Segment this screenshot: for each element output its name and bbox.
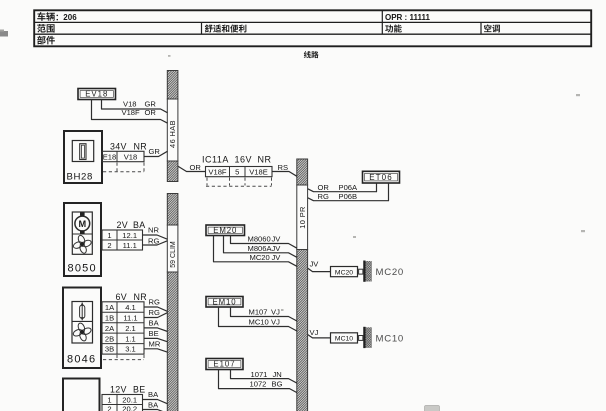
svg-text:V18E: V18E [249,168,268,177]
svg-text:BA: BA [133,220,145,230]
svg-text:2B: 2B [105,334,114,343]
svg-text:MC20: MC20 [335,269,353,276]
svg-text:2V: 2V [117,220,128,230]
svg-text:E107: E107 [213,360,235,369]
svg-text:V18F: V18F [122,108,141,117]
header text: parts row [37,36,55,45]
svg-text:JV: JV [272,253,282,262]
svg-text:BA: BA [149,319,160,328]
8046 connector dashed outline [103,355,144,360]
component 8046 blower resistor unit [63,288,101,369]
svg-text:3B: 3B [105,345,114,354]
svg-text:12.1: 12.1 [122,231,137,240]
svg-text:2A: 2A [105,324,115,333]
svg-text:M8060: M8060 [248,235,271,244]
svg-text:RG: RG [149,298,160,307]
stray scan mark left edge [0,30,8,37]
bus 59 CLIM [167,194,178,411]
svg-text:RG: RG [318,192,329,201]
svg-text:8050: 8050 [68,263,97,275]
wire RG P06B [308,183,389,201]
svg-text:VJ: VJ [271,318,280,327]
svg-text:VJ: VJ [310,328,319,337]
svg-text:16V: 16V [235,155,253,165]
svg-text:1071: 1071 [251,370,268,379]
svg-text:BA: BA [148,390,159,399]
svg-text:34V: 34V [110,141,127,151]
bus 10 PR [297,159,308,411]
BH28 connector dashed outline [103,163,144,172]
svg-text:2: 2 [107,241,111,250]
svg-text:V18F: V18F [208,168,227,177]
svg-text:NR: NR [148,226,159,235]
8050 connector pins 1/12.1 2/11.1, label 2V BA [102,220,145,250]
svg-text:1: 1 [107,231,111,240]
svg-text:M107: M107 [249,308,268,317]
svg-text:NR: NR [134,141,147,151]
wire 1071 JN [231,370,297,384]
wire OR from bus 46 HAB to IC11A [178,163,206,172]
svg-text:3.1: 3.1 [125,345,136,354]
fan symbol of 8050 [71,233,94,256]
svg-text:BH28: BH28 [67,172,93,183]
svg-text:1: 1 [107,395,111,404]
svg-text:MC10: MC10 [376,334,404,345]
wire M8060 JV [231,235,297,249]
scan specks (noise) [168,55,585,311]
svg-text:E18: E18 [103,153,117,162]
wire BA from bottom pin 1 [143,390,168,404]
faint box bottom right (cut) [425,406,440,411]
wire RS from IC11A to bus 10 PR [272,163,297,176]
svg-text:OR: OR [318,183,330,192]
svg-text:NR: NR [134,292,147,302]
svg-text:EV18: EV18 [85,90,108,99]
svg-text:6V: 6V [116,292,127,302]
wire BA from 8046 pin 2A [144,319,168,332]
wire RG from 8050 pin 2 [143,236,168,245]
wire BE from 8046 pin 2B [144,329,168,342]
svg-text:RS: RS [278,163,289,172]
wire VJ to MC10 [308,328,331,338]
ground connector MC20 [331,267,363,277]
svg-text:IC11A: IC11A [202,155,229,165]
svg-text:OR: OR [190,163,202,172]
svg-text:MC10: MC10 [249,318,269,327]
svg-text:OR: OR [145,108,157,117]
svg-text:46 HAB: 46 HAB [168,120,177,148]
ground MC10 hatched bar [364,327,371,348]
component ET06 [363,171,400,183]
svg-text:1B: 1B [105,313,114,322]
component (cut off at bottom) [63,379,100,411]
IC11A dashed outline [206,178,272,187]
svg-text:M806A: M806A [248,244,273,253]
svg-text:MC20: MC20 [376,267,404,278]
wire OR P06A [308,183,377,192]
svg-text:JV: JV [272,244,282,253]
svg-text:1072: 1072 [250,379,267,388]
component EM10 [206,297,243,308]
header text: vehicle 206 [37,12,77,22]
wire RG from 8046 pin 1A [144,298,168,312]
svg-text:1.1: 1.1 [125,334,136,343]
svg-text:11.1: 11.1 [123,313,137,322]
svg-text:M: M [78,219,86,229]
svg-text:：206: ：206 [55,13,77,22]
wire M107 VJ [231,307,297,321]
svg-text:20.1: 20.1 [122,395,137,404]
component E107 [206,359,243,370]
svg-text:BG: BG [272,379,283,388]
header text: scope row [37,24,500,33]
fan symbol of 8046 [71,321,94,344]
label 8046 [67,354,96,366]
component BH28 [64,131,102,183]
title block table [34,10,591,46]
svg-text:OPR : 11111: OPR : 11111 [385,13,430,22]
svg-text:4.1: 4.1 [125,303,136,312]
svg-text:MC10: MC10 [335,336,353,343]
BH28 connector pins E18 V18, label 34V NR [102,141,147,161]
svg-text:59 CLIM: 59 CLIM [170,241,177,268]
motor symbol M [75,212,90,234]
ground MC20 hatched bar [364,261,371,282]
svg-text:P06A: P06A [339,183,359,192]
svg-text:12V: 12V [110,385,127,395]
svg-text:ET06: ET06 [369,173,393,182]
wire GR from BH28 to bus 46 HAB [144,147,168,157]
wire MR from 8046 pin 3B [144,340,168,353]
connector IC11A label 16V NR [202,155,272,177]
svg-text:11.1: 11.1 [123,241,137,250]
resistor symbol of 8046 [80,303,85,321]
label MC10 [376,334,404,345]
svg-text:BE: BE [133,385,145,395]
svg-text:GR: GR [149,147,161,156]
svg-text:MR: MR [149,340,161,349]
svg-text:2: 2 [107,405,111,411]
svg-text:10 PR: 10 PR [298,206,307,229]
svg-text:P06B: P06B [339,192,358,201]
svg-text:EM10: EM10 [213,297,237,306]
wire 1072 BG [219,370,297,393]
header label: wiring [304,51,319,58]
svg-text:8046: 8046 [67,354,96,366]
wire M806A JV [224,236,297,258]
svg-text:20.2: 20.2 [122,405,137,411]
svg-text:JN: JN [273,370,282,379]
component EV18 [78,89,116,100]
wire V18F OR [92,100,168,124]
label 8050 [68,263,97,275]
svg-text:1A: 1A [105,303,115,312]
svg-text:NR: NR [258,155,272,165]
wire NR from 8050 pin 1 [143,226,168,240]
wire V18 GR [102,100,168,113]
wire RG from 8046 pin 1B [144,308,168,317]
wire JV to MC20 [308,260,331,272]
svg-text:RG: RG [149,308,160,317]
svg-text:BA: BA [148,400,159,409]
wire MC20 JV [214,236,297,267]
header text: OPR 11111 [385,13,430,22]
svg-text:JV: JV [310,260,320,269]
svg-text:5: 5 [235,168,239,177]
bottom connector pins 1/20.1 2/20.2, label 12V BE [102,385,145,411]
svg-text:EM20: EM20 [213,226,237,235]
wire BA from bottom pin 2 [143,400,168,411]
svg-text:2.1: 2.1 [125,324,136,333]
svg-text:JV: JV [272,235,282,244]
8046 connector pins, label 6V NR [102,292,147,354]
ground connector MC10 [331,333,363,343]
wire MC10 VJ [219,307,297,331]
svg-text:BE: BE [149,329,159,338]
component 8050 blower motor [64,203,101,276]
svg-text:RG: RG [148,236,159,245]
svg-text:V18: V18 [124,153,138,162]
svg-text:VJ: VJ [271,308,280,317]
bus 46 HAB [167,71,178,182]
label MC20 [376,267,404,278]
svg-text:MC20: MC20 [250,253,270,262]
component EM20 [206,225,245,236]
